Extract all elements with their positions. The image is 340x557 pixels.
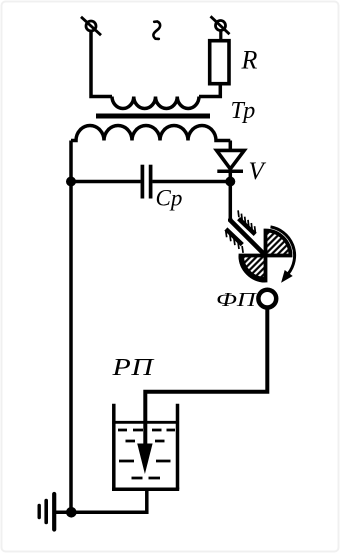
svg-text:ФП: ФП [216, 289, 257, 310]
photodetector FP [258, 290, 276, 308]
liquid level line [112, 421, 179, 424]
svg-text:Тр: Тр [231, 98, 256, 124]
node (left rail junction) [66, 177, 76, 187]
wire [229, 182, 233, 221]
ground [39, 494, 54, 530]
AC source symbol [153, 22, 160, 39]
wire [145, 308, 267, 444]
vessel [112, 404, 179, 490]
wire [69, 141, 73, 513]
svg-text:Ср: Ср [156, 186, 183, 211]
svg-text:РП: РП [111, 353, 155, 380]
wire [91, 31, 112, 97]
svg-text:R: R [241, 46, 258, 75]
capacitor Cp [142, 165, 150, 199]
wire [229, 141, 233, 151]
liquid dashes [118, 430, 175, 478]
terminal X2 [211, 16, 230, 34]
transformer Tp secondary winding [71, 126, 230, 141]
wire [56, 489, 147, 512]
diode V [217, 150, 245, 181]
wire [199, 41, 220, 97]
node (ground junction) [66, 507, 77, 518]
slit plate lower [226, 229, 243, 253]
slit plate upper [238, 210, 255, 234]
electrode arrow [137, 444, 152, 475]
wire [152, 180, 230, 184]
node (diode junction) [225, 177, 235, 187]
wire [71, 180, 141, 184]
chopper disc [241, 231, 291, 281]
terminal X1 [81, 17, 101, 35]
light beam [230, 219, 265, 256]
resistor R [210, 31, 229, 84]
transformer Tp primary winding [112, 97, 199, 109]
transformer Tp core [96, 114, 210, 119]
rotation arrow [271, 227, 295, 282]
